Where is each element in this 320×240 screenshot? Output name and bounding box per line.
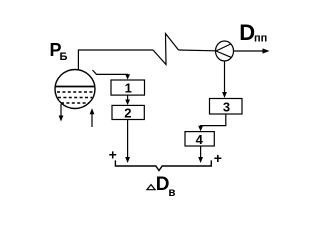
block 1 box (111, 80, 145, 95)
block 2 box (112, 105, 144, 119)
drum water level line (55, 86, 95, 88)
label delta D_v (feedwater flow correction) (147, 185, 155, 190)
svg-text:D: D (239, 20, 255, 45)
block 3 box (210, 99, 243, 115)
drum water dashed line 3 (61, 102, 89, 104)
drum water dashed line 2 (58, 97, 92, 99)
line break symbol (153, 34, 179, 65)
svg-text:пп: пп (254, 33, 267, 45)
flow sensor (orifice) circle (216, 41, 234, 61)
downcomer arrow (down, left of drum bottom) (59, 104, 64, 122)
svg-text:3: 3 (223, 100, 230, 115)
flow sensor wedge upper line (216, 44, 231, 51)
wire: sensor to block 3 (222, 61, 227, 98)
svg-text:1: 1 (125, 81, 132, 96)
svg-text:в: в (168, 187, 175, 199)
wire: block 1 to block 2 (arrow) (125, 95, 130, 105)
svg-text:+: + (109, 146, 117, 162)
feedwater arrow (up, into drum bottom right) (90, 108, 95, 127)
wire: block 4 to summing point (arrow down) (198, 146, 203, 163)
svg-text:Б: Б (60, 51, 68, 63)
wire: block 2 to summing point (long arrow down) (125, 120, 130, 164)
wire: block 3 to block 4 (elbow with arrow) (198, 114, 226, 131)
drum (boiler drum) (55, 70, 95, 109)
wire: drum tap to block 1 (diagonal + horizontal + arrow down) (93, 70, 131, 80)
summing brace (115, 160, 211, 170)
drum water dashed line 1 (57, 91, 93, 93)
wire: sensor output arrow (steam flow out) (234, 48, 270, 53)
wire: break to flow sensor (179, 49, 216, 52)
block 4 box (185, 132, 214, 146)
svg-text:4: 4 (196, 132, 204, 147)
wire: drum top riser to pressure line (78, 50, 153, 70)
svg-text:+: + (214, 150, 222, 166)
flow sensor wedge lower line (216, 51, 231, 57)
svg-text:2: 2 (124, 106, 131, 121)
